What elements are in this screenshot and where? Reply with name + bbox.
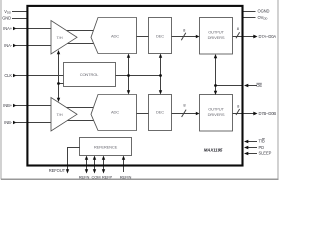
wire DEC vertical [160, 55, 162, 93]
svg-text:OUTPUT: OUTPUT [208, 106, 224, 111]
arrow CLK [13, 74, 17, 78]
overline OE [256, 82, 261, 84]
svg-text:DRIVERS: DRIVERS [208, 35, 225, 40]
arrow into OUTPUT DRIVERS A input [196, 35, 200, 39]
wire T/H B to ADC B minus [60, 120, 95, 122]
arrow REFP up [102, 156, 105, 160]
arrow REFOUT down [66, 169, 69, 173]
block REFERENCE [80, 138, 132, 156]
page frame bottom [1, 178, 279, 180]
op-amp T/H A [51, 21, 77, 55]
svg-text:GND: GND [2, 16, 11, 21]
wire T/H A to ADC A minus [60, 43, 95, 45]
block CONTROL [64, 63, 116, 87]
wire REFP [103, 157, 105, 173]
svg-text:CLK: CLK [4, 73, 12, 78]
arrow pin D7A-D0A [253, 35, 257, 39]
wire REFIN [123, 157, 125, 173]
wire clock vertical to T/H blocks [58, 52, 60, 101]
arrow clock down into T/H B [57, 98, 60, 102]
wire INA+ [16, 28, 53, 30]
svg-text:DEC: DEC [156, 33, 164, 38]
svg-text:DEC: DEC [156, 109, 164, 114]
svg-text:VDD: VDD [4, 9, 12, 15]
wire OGND [244, 11, 256, 13]
wire GND [12, 18, 27, 20]
wire INB+ [16, 105, 53, 107]
wire ADC A to DEC A [137, 36, 149, 38]
block OUTPUT DRIVERS A [200, 18, 233, 55]
svg-text:T/H: T/H [57, 112, 63, 117]
chip outline MAX1195 [27, 6, 242, 166]
wire REFOUT [68, 148, 81, 173]
svg-text:OUTPUT: OUTPUT [208, 29, 224, 34]
svg-text:SLEEP: SLEEP [259, 151, 272, 156]
wire CLK [16, 75, 64, 77]
wire PD pin [248, 147, 257, 149]
svg-text:DRIVERS: DRIVERS [208, 112, 225, 117]
wire OVDD [244, 17, 256, 19]
wire clock stub to CONTROL [59, 83, 64, 85]
wire output drivers A to pin D7A [233, 36, 254, 38]
svg-text:D7A–D0A: D7A–D0A [259, 34, 277, 39]
wire T/H A to ADC A plus [60, 30, 95, 32]
arrow INB- [13, 121, 17, 125]
arrow down into DEC B [159, 90, 162, 94]
page frame left [0, 0, 2, 180]
svg-text:ADC: ADC [111, 33, 119, 38]
arrow into OUTPUT DRIVERS B input [196, 112, 200, 116]
arrow REFIN up [122, 156, 125, 160]
block OUTPUT DRIVERS B [200, 95, 233, 132]
ADC A [91, 18, 137, 54]
arrow up into DEC A [159, 54, 162, 58]
bus slash B1 [182, 110, 187, 117]
arrow pin D7B-D0B [253, 112, 257, 116]
junction dot control-ADC [127, 74, 130, 77]
svg-text:PD: PD [259, 145, 265, 150]
op-amp T/H B [51, 98, 77, 132]
wire SLEEP pin [248, 153, 257, 155]
bus slash A2 [236, 32, 240, 38]
junction dot control-DEC [159, 74, 162, 77]
svg-text:D7B–D0B: D7B–D0B [259, 111, 277, 116]
arrow INB+ [13, 104, 17, 108]
block DEC A [149, 18, 172, 54]
wire output drivers B to pin D7B [233, 113, 254, 115]
arrow REFN up [85, 156, 88, 160]
arrow REFN down [85, 169, 88, 173]
svg-text:CONTROL: CONTROL [80, 72, 99, 77]
svg-text:INB-: INB- [4, 120, 13, 125]
wire OE pin [248, 85, 257, 87]
svg-text:INB+: INB+ [3, 103, 13, 108]
arrow pin PD [244, 146, 248, 150]
junction dot clock [57, 82, 60, 85]
arrow INA- [13, 44, 17, 48]
wire DEC A to output drivers A [172, 36, 197, 38]
svg-text:REFOUT: REFOUT [49, 168, 66, 173]
wire CONTROL to DEC verticals [116, 75, 161, 77]
wire INA- [16, 45, 53, 47]
arrow REFP down [102, 169, 105, 173]
svg-text:ADC: ADC [111, 109, 119, 114]
arrow pin T/B [244, 140, 248, 144]
svg-text:INA-: INA- [4, 43, 13, 48]
bus slash B2 [236, 109, 240, 115]
svg-text:OGND: OGND [258, 9, 270, 14]
arrow clock up into T/H A [57, 50, 60, 54]
svg-text:MAX1195: MAX1195 [204, 147, 223, 152]
arrow down into ADC B [127, 90, 130, 94]
svg-text:OVDD: OVDD [258, 15, 269, 21]
bus slash A1 [181, 33, 186, 40]
wire ADC clock vertical [128, 55, 130, 93]
arrow COM up [93, 156, 96, 160]
arrow down into OUTPUT DRIVERS B [214, 91, 217, 95]
svg-text:OE: OE [256, 83, 262, 88]
wire T/H B to ADC B plus [60, 107, 95, 109]
svg-text:T/B: T/B [259, 139, 265, 144]
svg-text:REFIN: REFIN [120, 175, 132, 180]
junction dot OE [214, 84, 217, 87]
wire OE to border [216, 85, 243, 87]
svg-text:REFN: REFN [79, 175, 90, 180]
wire VDD [12, 11, 27, 13]
wire output drivers OE vertical [215, 56, 217, 94]
svg-text:REFP: REFP [102, 175, 113, 180]
ADC B [91, 95, 137, 131]
overline T/B [262, 138, 265, 140]
arrow pin OE [244, 84, 248, 88]
svg-text:COM: COM [91, 175, 100, 180]
arrow up into ADC A [127, 54, 130, 58]
wire REFN [86, 157, 88, 173]
svg-text:T/H: T/H [57, 35, 63, 40]
page frame right [277, 0, 279, 180]
wire INB- [16, 122, 53, 124]
svg-text:REFERENCE: REFERENCE [94, 144, 118, 149]
block DEC B [149, 95, 172, 131]
arrow pin SLEEP [244, 152, 248, 156]
arrow up into OUTPUT DRIVERS A [214, 54, 217, 58]
svg-text:INA+: INA+ [3, 26, 13, 31]
wire T/B pin [248, 141, 257, 143]
arrow COM down [93, 169, 96, 173]
wire ADC B to DEC B [137, 113, 149, 115]
wire DEC B to output drivers B [172, 113, 197, 115]
arrow INA+ [13, 27, 17, 31]
wire COM [94, 157, 96, 173]
